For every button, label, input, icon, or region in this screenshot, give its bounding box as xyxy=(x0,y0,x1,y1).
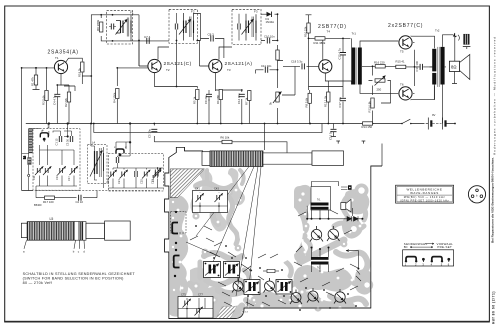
dashed link lines xyxy=(36,124,160,191)
capacitor C10 xyxy=(267,38,269,44)
pcb transistor Q3 xyxy=(232,278,244,293)
svg-text:T2: T2 xyxy=(166,68,170,72)
resistor strip xyxy=(263,270,279,272)
svg-text:F1: F1 xyxy=(130,11,134,15)
contact 6 xyxy=(447,258,450,261)
wire Tr1 primary top xyxy=(351,38,353,47)
capacitor C11 10n xyxy=(265,67,267,73)
tuned coil can3 xyxy=(242,14,257,41)
resistor R16 10k xyxy=(222,140,232,143)
earphone jack xyxy=(453,33,470,47)
wire top bus y=14.8 xyxy=(91,15,139,44)
svg-text:R11 380k: R11 380k xyxy=(314,41,326,45)
on-off switch xyxy=(401,119,411,124)
svg-text:T4: T4 xyxy=(327,30,331,34)
svg-text:C13: C13 xyxy=(55,175,59,180)
svg-text:R0 380k: R0 380k xyxy=(96,19,100,31)
capacitor in can3 xyxy=(238,24,240,30)
svg-text:R15 41: R15 41 xyxy=(396,60,405,64)
speaker 8 ohm xyxy=(449,55,469,80)
svg-text:L4: L4 xyxy=(92,141,96,145)
wire T2 emitter bias xyxy=(117,41,221,124)
svg-text:C7 4: C7 4 xyxy=(144,35,151,39)
ferrite rod plan holder xyxy=(312,151,344,166)
svg-text:C75: C75 xyxy=(181,293,186,297)
jumper 4-5 xyxy=(432,257,442,262)
ferrite rod plan bar xyxy=(263,153,312,164)
svg-text:C19: C19 xyxy=(106,179,110,184)
svg-text:R3 5.6k: R3 5.6k xyxy=(42,95,46,105)
svg-text:C18 3.3u: C18 3.3u xyxy=(291,60,303,64)
resistor R9 detector load xyxy=(276,50,279,60)
svg-text:C25: C25 xyxy=(140,179,144,184)
pcb transistor Q2 xyxy=(327,226,340,241)
IF can 2 dashed box xyxy=(169,9,197,43)
svg-text:F2: F2 xyxy=(191,10,195,14)
svg-text:R12 1.5k: R12 1.5k xyxy=(323,95,327,107)
jumper 1-2 xyxy=(406,257,416,262)
svg-text:C1 32: C1 32 xyxy=(151,175,155,182)
svg-text:WAVE-RANGES: WAVE-RANGES xyxy=(410,191,439,195)
capacitor C16 5u xyxy=(328,124,336,141)
capacitor C4 4.7u xyxy=(54,94,60,96)
svg-text:8Ω: 8Ω xyxy=(451,64,456,69)
C-bracket 2 xyxy=(174,256,180,268)
trimmer C21 xyxy=(120,170,128,179)
svg-text:C8 3: C8 3 xyxy=(208,33,215,37)
svg-text:R13 6.8k: R13 6.8k xyxy=(368,101,372,113)
svg-text:C77: C77 xyxy=(198,293,203,297)
extra pad holes xyxy=(177,175,362,314)
resistor R10 22k xyxy=(307,23,310,33)
svg-text:(SWITCH FOR BAND SELECTION IN: (SWITCH FOR BAND SELECTION IN BC POSITIO… xyxy=(23,277,124,281)
svg-text:Änderungen vorbehalten — Modif: Änderungen vorbehalten — Modifications r… xyxy=(492,36,496,155)
svg-text:C10 10n: C10 10n xyxy=(264,35,275,39)
resistor R17 100 xyxy=(36,191,97,205)
trimmer C11 xyxy=(35,166,43,175)
svg-text:C12 40u: C12 40u xyxy=(237,93,241,104)
svg-text:T3: T3 xyxy=(227,68,231,72)
wire T3 base xyxy=(197,41,209,67)
resistor R14 150 xyxy=(363,122,373,125)
svg-text:2SB77(D): 2SB77(D) xyxy=(318,24,347,30)
wire rail2 y=141.8 xyxy=(154,124,287,153)
wire battery rail xyxy=(426,123,429,125)
capacitor in can1 xyxy=(111,24,113,30)
rod holder xyxy=(105,221,131,240)
svg-text:T6: T6 xyxy=(400,83,404,87)
svg-text:Hdf 86 66 (2/71): Hdf 86 66 (2/71) xyxy=(491,291,495,324)
trimmer C19b xyxy=(109,170,117,179)
coil L2 xyxy=(28,158,31,165)
tuned coil can1 xyxy=(116,15,132,41)
svg-text:T5: T5 xyxy=(400,50,404,54)
pcb small parts row xyxy=(190,210,358,306)
note text block xyxy=(23,272,136,285)
resistor R1 47k xyxy=(34,75,37,85)
svg-text:(ORN) PRE-SET 1000~1620 kHz: (ORN) PRE-SET 1000~1620 kHz xyxy=(400,199,449,202)
svg-text:C15 4.7u: C15 4.7u xyxy=(338,48,342,60)
transistor T5 xyxy=(399,36,412,49)
svg-text:R1 47k: R1 47k xyxy=(30,77,34,86)
svg-text:R7 1k: R7 1k xyxy=(245,97,249,105)
svg-text:80 — 270k Veff: 80 — 270k Veff xyxy=(23,281,53,285)
IF can square 2 xyxy=(224,262,240,278)
pcb driver transformer xyxy=(307,182,362,219)
resistor R6 680 xyxy=(219,90,222,100)
wire T4 collector xyxy=(310,73,352,123)
wire audio supply xyxy=(306,15,315,90)
wire T1 base line y=67.9 xyxy=(22,68,54,191)
svg-text:C2 10: C2 10 xyxy=(76,200,84,204)
ferrite rod detail L5 xyxy=(21,217,130,254)
bare rod xyxy=(86,223,105,238)
capacitor C5 10u xyxy=(151,129,157,131)
resistor R0 380k xyxy=(100,22,103,32)
light band xyxy=(74,222,79,241)
hatched bottom bracket xyxy=(216,307,237,319)
resistor R7 1k xyxy=(248,91,251,101)
svg-text:T1: T1 xyxy=(55,56,59,60)
oscillator coil L4 dashed box xyxy=(88,123,108,188)
svg-text:C11: C11 xyxy=(32,175,36,180)
capacitor C15 4.7u xyxy=(340,53,346,55)
svg-text:C41: C41 xyxy=(195,187,200,191)
capacitor C19 100 xyxy=(420,64,422,70)
svg-text:2SA121(C): 2SA121(C) xyxy=(164,61,192,67)
svg-text:2SA354(A): 2SA354(A) xyxy=(48,50,79,56)
transistor T4 xyxy=(319,60,332,73)
svg-text:F3: F3 xyxy=(254,10,258,14)
volume potentiometer 250 xyxy=(375,76,386,92)
battery B1 xyxy=(428,113,445,130)
svg-text:R5 1k: R5 1k xyxy=(193,96,197,104)
main winding xyxy=(27,222,74,241)
trimmer C27 xyxy=(153,170,161,179)
wire earphone jack drop xyxy=(443,35,467,124)
pcb transistor Q4 xyxy=(264,278,276,293)
pcb pads black xyxy=(195,218,363,311)
pcb transistor Q7 xyxy=(334,289,346,304)
pcb speaker xyxy=(341,199,351,211)
svg-text:C43: C43 xyxy=(214,187,219,191)
volume pot P1 xyxy=(269,92,282,106)
svg-text:2SA121(A): 2SA121(A) xyxy=(225,61,253,67)
trimmer C17a xyxy=(70,166,78,175)
transistor T2 xyxy=(148,59,161,72)
resistor R4 150k xyxy=(116,89,119,99)
svg-text:Tr2: Tr2 xyxy=(435,29,440,33)
lead a xyxy=(24,240,27,249)
wire AGC line xyxy=(64,86,322,133)
wire box2/box3 link y=40.5 xyxy=(194,14,224,59)
capacitor C3 xyxy=(70,136,72,142)
copper pads with holes xyxy=(170,184,374,312)
transistor T6 xyxy=(399,87,412,100)
wire T1 collector to R18 xyxy=(65,44,91,124)
resistor R8 5.6k xyxy=(308,93,311,103)
svg-text:SCHALTBILD IN STELLUNG SENDERW: SCHALTBILD IN STELLUNG SENDERWAHL GEZEIC… xyxy=(23,272,136,276)
coupling capacitor C8 xyxy=(211,36,213,42)
svg-text:R2 22k: R2 22k xyxy=(64,98,68,107)
svg-text:250: 250 xyxy=(377,88,382,92)
wire chassis link xyxy=(264,124,266,151)
wire R1 bias xyxy=(33,85,70,124)
contact 3 xyxy=(422,258,425,261)
resistor R3 5.6k xyxy=(45,91,48,101)
wire box1 bottom to C7 to box2 xyxy=(101,15,169,66)
tuned coil can2 xyxy=(179,13,194,41)
capacitor C23 xyxy=(135,171,137,177)
pointer mark 2 xyxy=(362,141,366,144)
svg-text:R17 100: R17 100 xyxy=(43,200,54,204)
svg-text:9V: 9V xyxy=(432,113,436,117)
svg-text:Bei Reparaturen die VDE-Bestim: Bei Reparaturen die VDE-Bestimmungen 086… xyxy=(491,157,495,243)
resistor R18 5k xyxy=(81,62,84,72)
band selector dashed enclosure A xyxy=(22,123,80,198)
wires inside A xyxy=(36,123,77,198)
PCB outline top copy xyxy=(165,147,382,318)
wire box3 to detector xyxy=(261,14,278,51)
resistor R13 6.8k xyxy=(371,98,374,108)
svg-text:C17 10u: C17 10u xyxy=(338,96,342,107)
wire T3 collector xyxy=(219,47,232,60)
trace broad patches xyxy=(168,168,375,318)
transistor pinout circle xyxy=(468,186,485,203)
trimmer C13 xyxy=(43,166,51,175)
dark band xyxy=(79,222,83,241)
IF can 1 dashed box xyxy=(96,11,134,45)
svg-text:C17: C17 xyxy=(67,176,71,181)
capacitor C18 3.3u xyxy=(302,63,304,69)
trace top center xyxy=(196,183,232,189)
oscillator dashed enclosure B xyxy=(106,123,163,191)
bottom-left trimmer box xyxy=(178,293,213,319)
capacitor C17 10u xyxy=(340,98,346,100)
resistor R16 220 xyxy=(375,65,385,68)
resistor R12 1.5k xyxy=(327,92,330,102)
pcb diodes xyxy=(347,216,358,221)
svg-text:1N34A: 1N34A xyxy=(266,20,275,24)
svg-text:R14 150: R14 150 xyxy=(362,125,373,129)
resistor R11 380k xyxy=(315,37,325,40)
wire R11 to Tr1 xyxy=(309,38,351,86)
trace left column xyxy=(176,204,186,312)
svg-text:2x2SB77(C): 2x2SB77(C) xyxy=(388,23,423,29)
svg-text:R10 22k: R10 22k xyxy=(304,26,308,37)
IF can 3 dashed box xyxy=(232,9,261,44)
wire T1 emitter down xyxy=(57,74,69,92)
svg-text:C9 20u: C9 20u xyxy=(204,95,208,104)
wire output center network xyxy=(369,42,433,123)
transistor T3 xyxy=(209,59,222,72)
resistor R2 22k xyxy=(67,92,70,102)
left edge pads xyxy=(174,211,177,277)
wires inside B xyxy=(108,123,163,188)
diode D1 1N34A xyxy=(266,12,275,25)
svg-text:C3 30: C3 30 xyxy=(66,139,70,146)
pointer mark 1 xyxy=(336,141,340,144)
coupling capacitor C7 xyxy=(147,38,149,44)
trimmer box C41 C43 xyxy=(193,187,228,213)
svg-text:R8 5.6k: R8 5.6k xyxy=(305,97,309,107)
svg-text:L5: L5 xyxy=(50,217,54,221)
capacitor C12 40u xyxy=(239,94,245,96)
PCB copper traces xyxy=(173,170,368,314)
wire T4 base xyxy=(282,66,318,95)
wire L4 feeds xyxy=(91,124,104,189)
preset switch box xyxy=(403,250,454,266)
chassis corner stub xyxy=(381,144,383,167)
capacitor in can2 xyxy=(175,24,177,30)
transistor T1 xyxy=(54,60,67,73)
dashed service box xyxy=(171,212,187,234)
wire T5 collector to Tr2 xyxy=(411,36,435,100)
ferrite rod plan winding xyxy=(210,151,263,167)
pcb transistor Q6 xyxy=(307,288,319,303)
svg-text:C19 100: C19 100 xyxy=(415,60,419,71)
pcb wire right xyxy=(346,208,361,281)
PCB outline xyxy=(165,147,382,318)
capacitor C9 20u xyxy=(206,94,212,96)
leads b c d xyxy=(74,240,85,249)
IF can square 4 xyxy=(276,280,292,295)
IF can square 3 xyxy=(244,280,260,295)
diag arrows cluster xyxy=(241,264,252,271)
trace bottom band xyxy=(190,284,242,314)
wire main rail y=123.5 xyxy=(26,123,425,125)
svg-text:R6 680: R6 680 xyxy=(216,95,220,104)
switch contact a xyxy=(40,129,48,142)
trimmer C25 xyxy=(142,170,150,179)
light band 2 xyxy=(83,222,86,241)
pcb transistor Q1 xyxy=(310,226,323,242)
transformer Tr2 xyxy=(430,29,445,87)
capacitor C2 10 xyxy=(79,195,81,201)
svg-text:PRE-SET: PRE-SET xyxy=(437,245,452,249)
trimmer C32 left of board xyxy=(151,167,162,182)
wire Tr1 secondary to T5 T6 xyxy=(360,41,398,93)
dial cord lines xyxy=(186,167,261,308)
antenna coil L3 xyxy=(22,129,41,191)
capacitor C1 xyxy=(59,136,61,142)
wire detector to volume xyxy=(256,59,284,124)
trimmer C15a xyxy=(58,166,66,175)
svg-text:C16 5u: C16 5u xyxy=(328,131,332,140)
svg-text:C4 4.7u: C4 4.7u xyxy=(53,95,57,105)
bottom border rule xyxy=(4,321,490,323)
preset switch legend xyxy=(403,242,454,267)
wire T2 base xyxy=(139,40,148,66)
svg-text:R6 10k: R6 10k xyxy=(220,136,229,140)
wave range box xyxy=(396,185,454,203)
pcb output transformer xyxy=(311,248,329,273)
svg-text:B5400: B5400 xyxy=(34,203,42,207)
wire T2 collector xyxy=(158,47,169,60)
pcb jack xyxy=(341,185,352,190)
wire T3 emitter xyxy=(216,73,250,124)
wire Tr2 output to jack and speaker xyxy=(434,35,457,100)
C-bracket 1 xyxy=(172,223,178,234)
svg-text:R4 150k: R4 150k xyxy=(113,92,117,103)
ferrite rod plan end cap xyxy=(202,152,210,166)
capacitor C14 xyxy=(116,157,118,163)
svg-text:R18 5k: R18 5k xyxy=(78,68,82,77)
svg-text:R16 220: R16 220 xyxy=(374,60,385,64)
svg-text:Tr1: Tr1 xyxy=(352,32,357,36)
switch contact c xyxy=(114,145,127,156)
IF can square 1 xyxy=(204,262,221,278)
hatched corner area xyxy=(170,169,204,198)
white speaker clearance oval xyxy=(239,197,303,265)
svg-text:C11 10n: C11 10n xyxy=(261,64,272,68)
resistor R15 41 xyxy=(396,65,406,68)
svg-text:C1 15: C1 15 xyxy=(55,138,59,145)
pcb transistor Q5 xyxy=(290,290,302,305)
rod end cap xyxy=(21,223,27,237)
resistor R5 1k xyxy=(196,90,199,100)
svg-text:C5 10u: C5 10u xyxy=(148,129,152,138)
transformer Tr1 xyxy=(351,32,362,85)
svg-text:C21: C21 xyxy=(117,179,121,184)
trace mid links xyxy=(244,270,249,284)
trace under squares row1 xyxy=(204,253,242,259)
trace right column xyxy=(299,192,305,236)
svg-text:BC: BC xyxy=(404,245,408,249)
